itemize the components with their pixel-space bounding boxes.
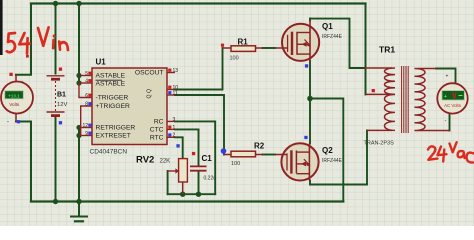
svg-text:OSCOUT: OSCOUT <box>135 70 164 77</box>
svg-text:C1: C1 <box>202 154 213 163</box>
node rail-battery junction <box>53 199 58 204</box>
primary winding lower <box>385 94 396 130</box>
wire Q2 source to primary bottom <box>310 130 367 184</box>
svg-text:13: 13 <box>173 68 179 74</box>
svg-text:8: 8 <box>85 101 88 107</box>
AC voltmeter <box>437 74 467 125</box>
TR1 center tap state square <box>372 89 375 92</box>
wire IC pin11 to R2 <box>175 95 224 155</box>
svg-text:4: 4 <box>85 78 88 84</box>
svg-text:3: 3 <box>173 117 176 123</box>
wire Q1S-Q2D node to ground riser <box>310 99 343 202</box>
node RV2 bottom junction <box>180 192 185 197</box>
svg-text:RETRIGGER: RETRIGGER <box>96 125 136 132</box>
pin 3 stub <box>167 120 175 122</box>
svg-text:ASTABLE: ASTABLE <box>96 72 126 79</box>
battery minus state square <box>59 121 62 124</box>
wire battery top <box>55 4 57 74</box>
svg-text:RV2: RV2 <box>136 154 154 165</box>
pin numbers right <box>173 68 179 139</box>
svg-text:EXTRESET: EXTRESET <box>96 133 131 140</box>
primary top lead <box>365 67 392 69</box>
svg-text:+TRIGGER: +TRIGGER <box>96 103 131 110</box>
svg-text:CTC: CTC <box>150 127 164 134</box>
svg-text:AC Volts: AC Volts <box>444 103 462 108</box>
pin 2 stub <box>167 136 175 138</box>
primary center tap lead <box>366 93 393 95</box>
node VCC-IC junction <box>76 1 81 6</box>
wire RC bottom net <box>168 193 216 195</box>
IC function labels <box>96 70 164 142</box>
potentiometer RV2 <box>136 154 187 194</box>
svg-text:Q1: Q1 <box>322 22 333 31</box>
wire node down to Q2 drain <box>309 99 311 144</box>
voltmeter plus pin state square <box>9 73 12 76</box>
svg-text:IRFZ44E: IRFZ44E <box>322 158 343 164</box>
svg-text:Q2: Q2 <box>322 146 333 155</box>
pin numbers left <box>82 71 88 137</box>
RV2 pin state square red <box>192 152 195 155</box>
pin 6 wire loop to pin4 net <box>79 83 92 98</box>
pin 11 stub <box>167 94 175 96</box>
resistor R2 <box>224 142 282 167</box>
wire voltmeter minus to bottom rail <box>15 114 17 122</box>
svg-text:9: 9 <box>85 131 88 137</box>
svg-text:R1: R1 <box>238 37 249 46</box>
wire VDD drop to IC pins 5,4 <box>78 4 80 84</box>
node C1 bottom junction <box>196 192 201 197</box>
resistor R1 <box>223 37 283 61</box>
handwritten annotation 24Vac <box>428 142 474 162</box>
svg-text:TR1: TR1 <box>379 45 395 55</box>
svg-text:6: 6 <box>85 93 88 99</box>
wire IC pin2 to RV2 top <box>175 137 183 158</box>
primary bottom lead <box>367 129 392 131</box>
ground <box>78 202 80 216</box>
pin 10 stub <box>167 89 175 91</box>
svg-text:TRAN-2P3S: TRAN-2P3S <box>364 141 395 147</box>
pin 13 stub <box>167 72 175 74</box>
svg-text:1: 1 <box>173 125 176 131</box>
pin 1 stub <box>167 128 175 130</box>
transistor Q2 IRFZ44E <box>281 143 342 180</box>
transformer TR1 TRAN-2P3S <box>365 66 450 133</box>
wire transformer secondary bottom to AC meter <box>449 114 451 131</box>
primary winding upper <box>385 68 396 94</box>
node Q1 source junction <box>307 96 313 102</box>
battery B1 <box>47 76 65 116</box>
pin state squares right <box>168 69 171 72</box>
svg-text:+: + <box>444 94 447 100</box>
wire left rail to voltmeter plus <box>16 4 31 75</box>
secondary winding <box>415 69 426 131</box>
pin 8 wire loop to pin9 net <box>81 106 92 136</box>
wire C1 bottom stub <box>198 171 200 194</box>
wire Q1 source down <box>309 61 311 99</box>
wire R1 to Q1 gate <box>263 47 276 49</box>
svg-text:+: + <box>446 74 449 80</box>
secondary bottom lead <box>418 130 450 132</box>
svg-text:-: - <box>445 119 447 125</box>
svg-text:RTC: RTC <box>150 135 164 142</box>
wire IC pin10 to R1 <box>175 48 223 90</box>
pin 4 stub <box>79 82 92 84</box>
handwritten annotation 54Vin <box>7 27 68 53</box>
R1 pin state square <box>221 44 224 47</box>
node pin4 junction <box>76 80 81 85</box>
pin 5 stub <box>79 75 92 77</box>
pin 12 stub <box>79 127 92 129</box>
node pin5 junction <box>76 73 81 78</box>
svg-text:11: 11 <box>173 90 178 96</box>
transistor Q1 IRFZ44E <box>282 20 343 61</box>
svg-text:Q Q: Q Q <box>147 89 153 99</box>
wire IC pin3 RC net <box>175 121 215 194</box>
svg-text:100: 100 <box>230 56 239 62</box>
wire Q1 drain to transformer primary top <box>310 19 365 68</box>
wire top VCC rail <box>31 2 366 4</box>
svg-text:22K: 22K <box>160 158 171 164</box>
RV2 pin state square blue <box>176 144 179 147</box>
wire rail right end down to center tap <box>365 4 367 95</box>
svg-text:CD4047BCN: CD4047BCN <box>90 149 128 156</box>
battery plus state square <box>59 68 62 71</box>
svg-text:Volts: Volts <box>9 102 20 107</box>
svg-text:R2: R2 <box>254 142 265 151</box>
node pin11-R2 junction (blue state dot) <box>221 148 227 154</box>
wire IC pin1 to C1 top <box>175 129 199 166</box>
svg-text:RC: RC <box>154 119 164 126</box>
node VCC-battery junction <box>53 1 58 6</box>
wire R2 to Q2 gate <box>263 154 276 156</box>
svg-text:5: 5 <box>85 71 88 77</box>
pin state squares left <box>88 72 91 75</box>
probe marker red <box>26 55 29 58</box>
svg-text:12: 12 <box>82 123 88 129</box>
svg-text:0.22u: 0.22u <box>204 176 217 182</box>
secondary top lead <box>418 68 437 70</box>
Q2 drain pin state square <box>304 136 307 139</box>
Q1 source pin state square <box>305 64 308 67</box>
black edge bar top-left <box>0 0 3 55</box>
svg-text:-: - <box>7 120 9 126</box>
node rail-IC-ground junction <box>76 199 81 204</box>
wire transformer secondary top to AC meter <box>436 69 456 84</box>
svg-text:+13.1: +13.1 <box>8 93 20 98</box>
svg-text:B1: B1 <box>57 92 66 99</box>
node pin9 junction <box>76 133 81 138</box>
svg-text:2: 2 <box>173 133 176 139</box>
op IC U1 CD4047BCN body <box>92 68 167 145</box>
node pin12 junction <box>76 125 81 130</box>
wire RV2 wiper drop <box>167 171 169 194</box>
voltmeter DC <box>1 80 33 126</box>
pin 9 stub <box>79 135 92 137</box>
svg-text:IRFZ44E: IRFZ44E <box>322 34 343 40</box>
wire battery bottom <box>55 117 57 202</box>
svg-text:+: + <box>21 80 24 86</box>
capacitor C1 <box>190 154 216 182</box>
voltmeter minus pin state square <box>17 120 20 123</box>
core <box>402 66 409 133</box>
wire bottom ground rail <box>31 200 343 202</box>
svg-text:ASTABLE: ASTABLE <box>96 80 126 87</box>
svg-text:100: 100 <box>231 161 240 167</box>
svg-text:U1: U1 <box>96 58 107 67</box>
svg-text:-TRIGGER: -TRIGGER <box>96 95 129 102</box>
svg-text:12V: 12V <box>57 102 67 108</box>
wire voltmeter top stub <box>15 75 17 82</box>
wire IC ground pins 12,9 drop <box>78 128 80 202</box>
